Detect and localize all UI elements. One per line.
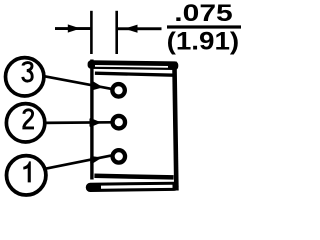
- svg-text:(1.91): (1.91): [167, 27, 240, 55]
- svg-text:.075: .075: [174, 0, 232, 27]
